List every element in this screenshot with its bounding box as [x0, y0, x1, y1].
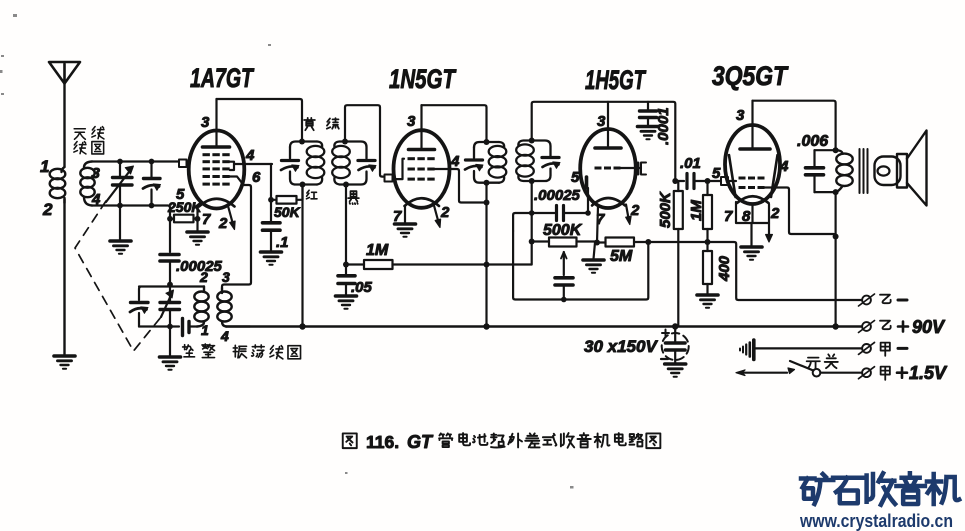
svg-text:3: 3	[407, 113, 416, 130]
svg-text:500K: 500K	[657, 191, 674, 228]
node dot OT bottom	[833, 189, 839, 195]
V4 grid entry	[728, 180, 736, 182]
trimmer capacitor osc left	[130, 303, 148, 327]
speaker magnet	[897, 154, 907, 188]
capacitor .01	[675, 180, 684, 182]
wire grid line y213	[513, 181, 588, 231]
svg-text:7: 7	[596, 211, 605, 228]
terminal B-	[859, 294, 875, 306]
V4 grid dashes	[739, 177, 765, 190]
V1 pin4 bracket	[230, 162, 272, 170]
wire AVC loop	[513, 231, 648, 300]
resistor 250K	[174, 215, 194, 223]
resistor 5M	[606, 238, 635, 247]
svg-text:.006: .006	[797, 133, 828, 150]
svg-text:50K: 50K	[274, 204, 301, 220]
V1 pin6 lead	[230, 177, 244, 186]
tube V1 1A7GT envelope	[189, 131, 245, 209]
svg-text:3: 3	[597, 113, 606, 130]
ground antenna	[54, 356, 75, 369]
svg-text:1.5V: 1.5V	[909, 363, 948, 383]
node dot .01 left	[672, 178, 678, 184]
label 黑	[348, 191, 359, 204]
svg-text:30 x150V: 30 x150V	[584, 337, 658, 356]
V2 top lead	[420, 105, 422, 149]
label 乙-	[880, 295, 891, 304]
svg-text:90V: 90V	[912, 317, 946, 337]
capacitor .00025 osc grid	[160, 255, 179, 283]
node dot IFT2 pri bottom	[484, 180, 490, 186]
label 红	[307, 190, 318, 199]
V2 plate bar	[409, 148, 435, 152]
ground .05 cap	[336, 296, 357, 309]
node dot .01 right	[705, 178, 711, 184]
svg-text:2: 2	[440, 204, 450, 221]
pot leads	[532, 240, 597, 242]
caption hanzi	[439, 433, 660, 448]
svg-text:2: 2	[630, 202, 640, 219]
V3 diode plate bracket	[637, 163, 640, 174]
node dot top C1	[117, 159, 123, 165]
ground .1 cap	[261, 252, 282, 265]
antenna coil secondary L1b	[80, 162, 94, 206]
svg-text:1A7GT: 1A7GT	[190, 63, 255, 93]
svg-text:3: 3	[201, 114, 210, 131]
node dot IFT2 riser at 1M line	[484, 262, 490, 268]
ground V4	[750, 223, 752, 246]
node dot bottom C1	[117, 203, 123, 209]
tube V3 1H5GT envelope	[580, 129, 636, 208]
pot wiper arrow	[563, 252, 565, 275]
wire antenna to ground	[63, 199, 65, 355]
node dot AVC right	[645, 239, 651, 245]
svg-text:.05: .05	[351, 279, 373, 296]
capacitor 垫整 padder series	[183, 319, 198, 336]
V1 top lead	[215, 99, 217, 147]
IFT2 secondary winding	[516, 141, 560, 182]
grid cap square V1	[179, 160, 187, 168]
V1 filament arc	[199, 199, 235, 207]
node dot tank bottom	[167, 324, 173, 330]
oscillator coil primary	[194, 287, 208, 327]
label plus electrolytic	[662, 330, 669, 337]
switch	[821, 372, 863, 374]
wire osc node4 to bus	[226, 325, 250, 327]
svg-text:5M: 5M	[610, 248, 633, 265]
node dot IFT2 sec bottom	[529, 178, 535, 184]
node dot 1M left	[343, 262, 349, 268]
wire 50K leads	[271, 185, 303, 200]
node dot pin5	[195, 216, 201, 222]
svg-text:.0001: .0001	[655, 107, 672, 145]
node dot top C2	[149, 159, 155, 165]
svg-text:4: 4	[220, 328, 229, 344]
label 黄	[304, 118, 315, 130]
V3 grid dashes	[595, 167, 621, 170]
resistor 400	[703, 251, 712, 284]
V2 pin7 stem	[404, 206, 406, 223]
tube V4 3Q5GT envelope	[725, 125, 780, 204]
grid cap square V4	[721, 177, 728, 185]
resistor 500K vertical	[674, 191, 683, 229]
transformer core lines	[860, 149, 868, 193]
wire OT bottom to bus	[834, 192, 836, 326]
wire osc tank bottom	[139, 325, 179, 327]
node dot bus IFT1	[299, 323, 305, 329]
svg-text:2: 2	[199, 269, 208, 285]
dashed gang line	[75, 201, 161, 351]
ground tuning cap	[110, 241, 131, 254]
node dot sec bottom riser	[529, 210, 535, 216]
svg-text:3: 3	[736, 107, 745, 124]
V1 grid dashes	[203, 153, 230, 185]
node dot IFT2 screen joint	[484, 200, 490, 206]
svg-text:7: 7	[202, 211, 211, 228]
label 开关	[807, 354, 838, 368]
wire 5M leads	[597, 241, 708, 244]
svg-text:.1: .1	[276, 234, 289, 251]
wire antenna mast down	[63, 84, 65, 168]
V1 plate bar	[203, 145, 230, 149]
resistor 1M vertical	[703, 195, 712, 229]
node dot IFT2 pri top	[484, 139, 490, 145]
node dot 250K left	[167, 216, 173, 222]
resistor 50K	[277, 196, 297, 204]
V2 pin4 lead	[435, 169, 487, 203]
ground oscillator	[160, 357, 181, 370]
wire V1 plate to IFT1	[217, 99, 303, 142]
V3 diode lead right	[621, 167, 642, 169]
V2 grid dashes	[408, 157, 435, 180]
wire IFT1 sec top to 1N5GT grid	[345, 105, 385, 176]
OT primary coil	[836, 150, 853, 192]
svg-text:4: 4	[450, 153, 460, 170]
V1 pin2 arrow	[228, 206, 234, 226]
wire B minus line	[708, 242, 862, 300]
svg-text:3: 3	[92, 165, 101, 182]
ground 400	[697, 295, 718, 308]
IFT2 primary winding	[465, 142, 506, 183]
wire secondary bottom	[92, 206, 170, 216]
svg-text:3Q5GT: 3Q5GT	[712, 61, 789, 91]
ground pin7 V3	[594, 243, 596, 260]
resistor 1M horizontal	[364, 260, 393, 269]
node dot IFT1 sec bottom	[343, 182, 349, 188]
node dot OT top	[833, 147, 839, 153]
antenna	[49, 62, 80, 84]
node dot bottom C2	[149, 203, 155, 209]
V2 pin2 arrow	[434, 206, 439, 225]
wire V4 plate rail to OT	[753, 101, 836, 150]
label 垫整	[183, 344, 215, 358]
oscillator coil secondary 振荡线圈	[217, 288, 231, 327]
node dot IFT2 sec top	[529, 138, 535, 144]
capacitor AVC below wiper	[555, 278, 573, 300]
capacitor .006	[806, 150, 824, 192]
antenna coil primary L1a	[50, 167, 66, 203]
wire .01 to grid V4	[708, 180, 722, 182]
V3 top lead	[607, 102, 609, 148]
ground pin7 1A7GT	[187, 232, 208, 245]
node dot OT plate joint	[833, 234, 839, 240]
V4 screen lead to plate line	[765, 188, 836, 237]
svg-text:4: 4	[779, 158, 789, 175]
V4 pin2 arrow	[768, 204, 770, 235]
terminal B+90V	[859, 321, 875, 333]
IFT1 primary winding	[281, 142, 324, 185]
wire V2 plate to IFT2	[422, 105, 487, 142]
wire osc ground stem	[169, 327, 171, 357]
node dot IFT1 sec top	[342, 139, 348, 145]
terminal A-	[859, 342, 875, 354]
svg-text:7: 7	[724, 208, 733, 225]
watermark 矿石收音机	[801, 473, 959, 505]
label 甲+1.5V	[881, 367, 890, 380]
svg-text:2: 2	[42, 200, 53, 219]
svg-text:1H5GT: 1H5GT	[585, 65, 647, 95]
wire IFT2 sec top rail to 1H5GT and .0001	[532, 102, 676, 181]
node dot bus electrolytic	[672, 323, 678, 329]
node dot pin7 V3	[594, 240, 600, 246]
V3 pin7 stem	[597, 206, 598, 243]
svg-text:.01: .01	[680, 155, 701, 172]
chassis comb A minus	[752, 340, 756, 360]
capacitor .05	[338, 265, 355, 296]
wire IFT1 pri bottom to bus	[301, 185, 303, 327]
capacitor .0001	[640, 102, 657, 126]
wire IFT2 pri bottom to bus	[485, 183, 487, 327]
label 绿	[327, 118, 339, 129]
ground pin7 V2	[395, 224, 416, 237]
svg-text:www.crystalradio.cn: www.crystalradio.cn	[799, 511, 953, 531]
label 线圈	[74, 142, 104, 154]
OT primary loop	[815, 150, 836, 192]
node dot grid joint	[585, 210, 591, 216]
tube V2 1N5GT envelope	[394, 130, 450, 208]
V4 top lead	[751, 101, 753, 149]
wire osc tank top	[139, 287, 204, 301]
electrolytic 30x150V	[662, 333, 689, 360]
svg-text:8: 8	[742, 208, 751, 225]
svg-text:2: 2	[218, 215, 228, 232]
IFT1 secondary winding	[332, 142, 376, 185]
node dot AVC cap stem	[561, 297, 567, 303]
node dot tank top	[167, 282, 173, 288]
wire V1 pin4 screen drop	[270, 164, 272, 198]
svg-text:5: 5	[571, 169, 580, 186]
node dot IFT1 pri bottom	[300, 182, 306, 188]
ground .0001	[638, 127, 659, 140]
wire grid top rail to 1A7GT	[92, 160, 179, 162]
label 乙+90V	[880, 321, 891, 330]
wire IFT1 sec bottom drop	[345, 185, 347, 265]
wire 500K vert leads	[677, 181, 679, 327]
svg-text:1: 1	[201, 322, 209, 338]
wire osc grid riser	[169, 215, 171, 252]
grid cap square V2	[385, 175, 393, 182]
wire 400 leads	[706, 242, 708, 294]
V2 grid bracket left	[393, 159, 405, 179]
svg-text:5: 5	[712, 165, 721, 182]
label 甲-	[881, 343, 890, 356]
variable capacitor osc main	[160, 285, 180, 327]
wire main B+ bus	[226, 325, 861, 327]
svg-text:500K: 500K	[543, 222, 583, 239]
svg-text:116.: 116.	[366, 432, 399, 452]
wire 1M leads	[346, 263, 532, 265]
V4 plate bar	[740, 147, 770, 151]
svg-text:1M: 1M	[688, 200, 705, 221]
scan specks	[0, 14, 574, 489]
wire osc node3 to pin6	[222, 185, 251, 288]
svg-text:GT: GT	[407, 432, 434, 452]
V4 filament arc	[737, 196, 769, 203]
node dot 1M vert bottom	[705, 239, 711, 245]
variable capacitor C1 tuning	[106, 162, 134, 206]
terminal A+1.5V	[859, 367, 875, 379]
V2 filament arc	[405, 198, 440, 206]
V3 pin2 arrow	[626, 205, 629, 222]
wire pin5 pin7 stem	[196, 206, 198, 231]
svg-text:1N5GT: 1N5GT	[389, 64, 457, 94]
wire switch left with arrow	[739, 372, 787, 374]
label minus electrolytic	[661, 358, 668, 360]
svg-text:6: 6	[252, 169, 261, 186]
svg-text:4: 4	[245, 147, 255, 164]
wire ground stem tuning	[119, 206, 121, 241]
node dot bus OT	[832, 323, 838, 329]
node dot pot left	[529, 239, 535, 245]
node dot IFT1 pri top	[299, 139, 305, 145]
label 天线	[74, 127, 104, 140]
node dot bus IFT2	[483, 323, 489, 329]
wire 250K leads	[170, 217, 198, 220]
trimmer capacitor C2	[143, 162, 161, 206]
ground electrolytic	[665, 364, 686, 377]
V4 beam plates	[729, 155, 778, 197]
wire 1M vert leads	[706, 181, 708, 242]
svg-text:3: 3	[222, 269, 230, 285]
svg-text:400: 400	[716, 255, 733, 282]
speaker cone	[907, 131, 927, 206]
svg-text:.00025: .00025	[534, 187, 581, 204]
svg-text:5: 5	[176, 186, 185, 203]
wire 1M line to pot left	[531, 242, 533, 265]
label 振荡线圈	[233, 345, 300, 359]
potentiometer 500K	[549, 238, 577, 247]
svg-text:2: 2	[770, 205, 780, 222]
svg-text:1M: 1M	[366, 242, 389, 259]
V3 plate bar	[595, 146, 621, 150]
wire pot left riser	[531, 213, 533, 242]
svg-text:1: 1	[40, 157, 49, 176]
V3 grid cap bar	[585, 177, 589, 188]
capacitor .1	[263, 200, 281, 251]
speaker voice coil	[875, 157, 901, 186]
V4 pins bracket 7 8	[736, 202, 769, 223]
node dot 50K left	[268, 197, 274, 203]
caption 图 116.	[343, 433, 357, 448]
wire A minus	[754, 347, 862, 349]
capacitor .00025 series	[555, 206, 558, 221]
V3 filament arc	[592, 198, 625, 206]
